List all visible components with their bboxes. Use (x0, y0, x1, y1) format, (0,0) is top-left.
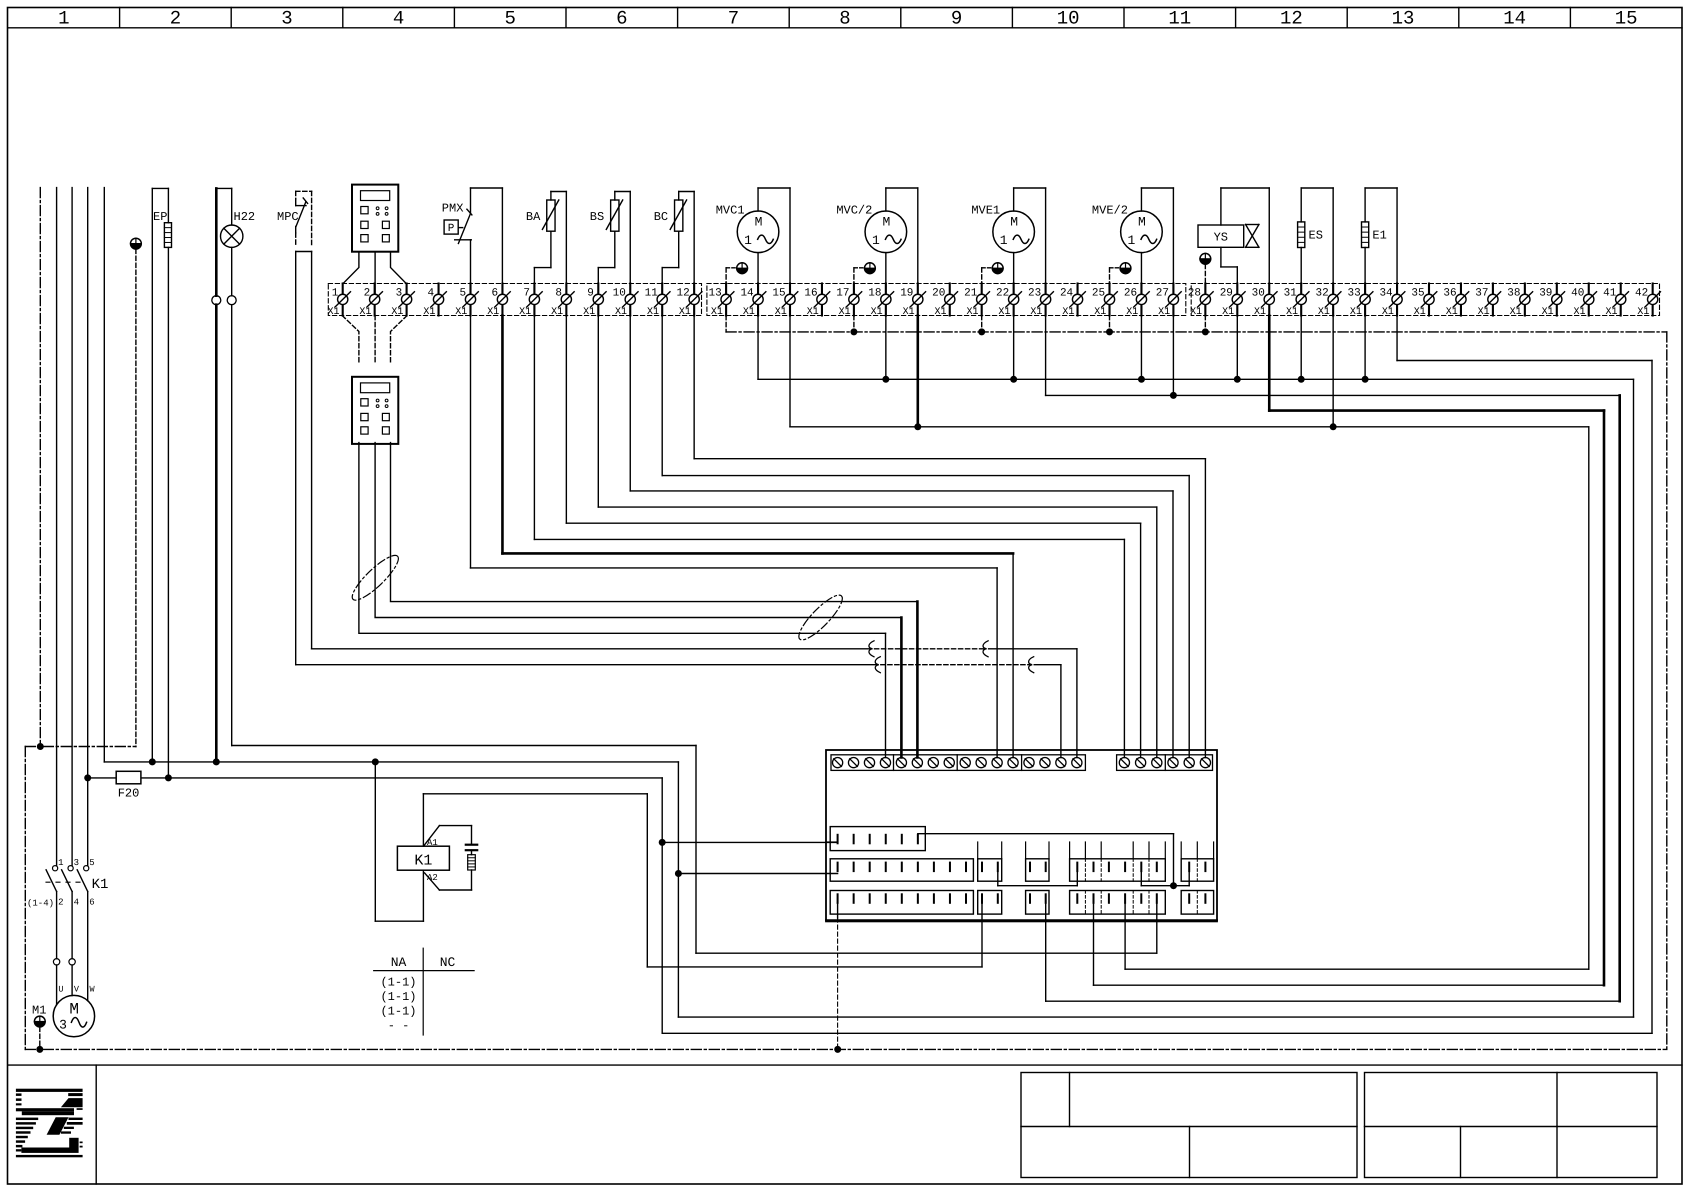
svg-text:W: W (90, 985, 96, 995)
svg-text:(1-1): (1-1) (380, 1005, 416, 1019)
wire neutral bus (104, 758, 682, 877)
svg-text:8: 8 (839, 8, 850, 30)
element E1 (1362, 188, 1398, 294)
svg-text:3: 3 (74, 858, 79, 868)
svg-text:X1: X1 (487, 307, 499, 318)
PE symbol EP (131, 238, 142, 746)
wire board neutral branch (678, 873, 837, 875)
svg-text:M: M (882, 215, 890, 230)
svg-text:X1: X1 (1062, 307, 1074, 318)
keypad unit B (352, 377, 398, 444)
svg-text:X1: X1 (1318, 307, 1330, 318)
svg-text:BS: BS (590, 210, 604, 224)
board row B stubs (978, 842, 1214, 859)
rail N (103, 188, 105, 762)
svg-text:X1: X1 (1030, 307, 1042, 318)
svg-text:U: U (58, 985, 63, 995)
svg-text:27: 27 (1156, 288, 1169, 300)
wire board PE (837, 903, 839, 1050)
PE symbol MVE1 (982, 263, 1003, 295)
wire X1:8 to board screw (566, 316, 1140, 758)
component H22 (212, 188, 255, 762)
sensor BA (526, 192, 566, 295)
wire row A pin6 link (918, 834, 1189, 890)
svg-text:1: 1 (1000, 233, 1008, 248)
svg-text:10: 10 (1057, 8, 1080, 30)
svg-text:13: 13 (708, 288, 721, 300)
svg-text:X1: X1 (583, 307, 595, 318)
svg-text:22: 22 (996, 288, 1009, 300)
svg-text:X1: X1 (1414, 307, 1426, 318)
svg-text:5: 5 (459, 288, 466, 300)
svg-text:K1: K1 (92, 877, 109, 893)
svg-text:X1: X1 (935, 307, 947, 318)
svg-text:BA: BA (526, 210, 541, 224)
svg-text:X1: X1 (391, 307, 403, 318)
wire keypad A to X1:3 (391, 252, 407, 295)
keypad unit A (352, 185, 398, 252)
PE symbol M1 (34, 1016, 45, 1053)
svg-text:2: 2 (58, 898, 63, 908)
svg-text:X1: X1 (551, 307, 563, 318)
svg-text:30: 30 (1252, 288, 1265, 300)
svg-text:X1: X1 (1286, 307, 1298, 318)
svg-text:M: M (1010, 215, 1018, 230)
svg-text:NC: NC (440, 955, 456, 970)
wire MPC upper to board (312, 641, 1077, 758)
svg-text:V: V (74, 985, 80, 995)
svg-text:3: 3 (396, 288, 403, 300)
svg-text:5: 5 (89, 858, 94, 868)
board connector row B (830, 859, 1213, 881)
relay coil K1 (375, 762, 449, 921)
rail PE dash-dot (39, 188, 41, 747)
svg-text:24: 24 (1060, 288, 1074, 300)
terminal strip X1 terminals 1-42 (327, 284, 1660, 318)
component EP (152, 188, 171, 778)
svg-text:35: 35 (1411, 288, 1424, 300)
PE frame bottom (25, 1046, 1667, 1053)
svg-text:3: 3 (59, 1018, 67, 1033)
svg-text:X1: X1 (966, 307, 978, 318)
svg-text:- -: - - (388, 1019, 410, 1033)
svg-text:7: 7 (523, 288, 530, 300)
svg-text:X1: X1 (743, 307, 755, 318)
svg-text:33: 33 (1347, 288, 1360, 300)
snubber RC K1 (424, 826, 477, 890)
wire board to K1 A1 (423, 794, 982, 967)
motor MVE1 (971, 188, 1045, 294)
svg-text:13: 13 (1392, 8, 1415, 30)
svg-text:36: 36 (1443, 288, 1456, 300)
svg-text:MVC1: MVC1 (716, 203, 745, 217)
svg-text:X1: X1 (903, 307, 915, 318)
svg-text:10: 10 (613, 288, 626, 300)
svg-text:18: 18 (868, 288, 881, 300)
PE bus right side (1666, 332, 1668, 1050)
svg-text:X1: X1 (711, 307, 723, 318)
motor MVC1 (716, 188, 790, 294)
svg-text:MPC: MPC (277, 210, 299, 224)
svg-text:6: 6 (89, 898, 94, 908)
svg-text:21: 21 (964, 288, 978, 300)
sensor BC (654, 192, 694, 295)
wire X1:9 to board screw (598, 316, 1157, 758)
svg-text:38: 38 (1507, 288, 1520, 300)
svg-text:37: 37 (1475, 288, 1488, 300)
svg-text:11: 11 (645, 288, 659, 300)
wire X1:34 feed (662, 316, 1652, 1034)
PE symbol YS (1200, 253, 1211, 294)
svg-text:42: 42 (1635, 288, 1648, 300)
wire MPC lower to board (296, 657, 1061, 758)
board connector row C (830, 891, 1213, 915)
svg-text:1: 1 (1128, 233, 1136, 248)
wire X1:6 to board screw (502, 316, 1013, 758)
svg-text:X1: X1 (807, 307, 819, 318)
svg-text:20: 20 (932, 288, 945, 300)
svg-text:X1: X1 (775, 307, 787, 318)
title block frame (8, 1065, 1682, 1184)
svg-text:X1: X1 (359, 307, 371, 318)
svg-text:9: 9 (587, 288, 594, 300)
board screw terminals (831, 755, 1213, 771)
svg-text:X1: X1 (1637, 307, 1649, 318)
svg-text:X1: X1 (1222, 307, 1234, 318)
svg-text:(1-1): (1-1) (380, 990, 416, 1004)
svg-text:34: 34 (1379, 288, 1393, 300)
rail L1 (56, 188, 58, 866)
svg-text:M: M (69, 1001, 79, 1019)
svg-text:NA: NA (391, 955, 407, 970)
svg-text:K1: K1 (414, 852, 432, 869)
element ES (1298, 188, 1334, 294)
svg-text:19: 19 (900, 288, 913, 300)
wire board phase branch (663, 841, 838, 843)
wire keypad A to X1:2 (374, 252, 376, 295)
motor M1 (32, 985, 96, 1037)
motor MVC/2 (836, 188, 917, 294)
svg-text:39: 39 (1539, 288, 1552, 300)
svg-text:X1: X1 (615, 307, 627, 318)
wire keypad B a to board (359, 443, 886, 758)
wire X1:23 X1:27 feed (1046, 316, 1620, 1002)
svg-text:26: 26 (1124, 288, 1137, 300)
svg-text:17: 17 (836, 288, 849, 300)
svg-text:14: 14 (740, 288, 754, 300)
svg-text:11: 11 (1168, 8, 1191, 30)
svg-text:1: 1 (744, 233, 752, 248)
component MPC (277, 191, 312, 246)
solenoid YS (1198, 188, 1269, 294)
svg-text:4: 4 (393, 8, 404, 30)
board connector row A (830, 827, 925, 851)
svg-text:41: 41 (1603, 288, 1617, 300)
svg-text:29: 29 (1220, 288, 1233, 300)
svg-text:(1-4): (1-4) (27, 899, 54, 909)
controller board outline (826, 750, 1217, 921)
svg-text:F20: F20 (118, 787, 140, 801)
svg-text:E1: E1 (1372, 229, 1386, 243)
PE symbol MVC/2 (854, 263, 875, 295)
svg-text:16: 16 (804, 288, 817, 300)
svg-text:M: M (755, 215, 763, 230)
svg-text:X1: X1 (519, 307, 531, 318)
svg-text:6: 6 (491, 288, 498, 300)
fuse F20 (84, 771, 666, 846)
svg-text:2: 2 (170, 8, 181, 30)
wire X1:15 X1:19 X1:32 feed (790, 316, 1589, 970)
PE symbol MVC1 (726, 263, 747, 295)
svg-text:X1: X1 (871, 307, 883, 318)
table NA NC (374, 948, 474, 1035)
svg-text:7: 7 (728, 8, 739, 30)
svg-text:12: 12 (677, 288, 690, 300)
svg-text:X1: X1 (1350, 307, 1362, 318)
svg-text:3: 3 (281, 8, 292, 30)
svg-text:X1: X1 (1478, 307, 1490, 318)
svg-text:1: 1 (332, 288, 339, 300)
svg-text:9: 9 (951, 8, 962, 30)
svg-text:P: P (448, 223, 455, 235)
svg-text:X1: X1 (455, 307, 467, 318)
PE bus (726, 316, 1667, 336)
svg-text:4: 4 (428, 288, 435, 300)
svg-text:1: 1 (58, 858, 63, 868)
svg-text:X1: X1 (1190, 307, 1202, 318)
component PMX (442, 188, 503, 294)
svg-text:12: 12 (1280, 8, 1303, 30)
svg-text:X1: X1 (1126, 307, 1138, 318)
svg-text:X1: X1 (327, 307, 339, 318)
svg-text:5: 5 (504, 8, 515, 30)
svg-text:25: 25 (1092, 288, 1105, 300)
motor MVE/2 (1092, 188, 1173, 294)
svg-text:MVC/2: MVC/2 (836, 203, 872, 217)
wire keypad B b to board (375, 443, 901, 758)
svg-text:2: 2 (364, 288, 371, 300)
svg-text:14: 14 (1503, 8, 1526, 30)
rail L2 (71, 188, 73, 866)
cable keypad remote link (343, 316, 407, 365)
wire keypad A to X1:1 (343, 252, 359, 295)
wire H22 return (232, 746, 1157, 954)
PE frame left (25, 743, 136, 1049)
logo (16, 1089, 83, 1158)
contactor K1 main contacts (27, 858, 108, 909)
cable screen ellipse B (794, 590, 848, 645)
PE symbol MVE/2 (1110, 263, 1131, 295)
svg-text:M1: M1 (32, 1003, 46, 1017)
wire MPC cable pair (296, 252, 312, 665)
svg-text:6: 6 (616, 8, 627, 30)
svg-text:X1: X1 (423, 307, 435, 318)
wire X1:10 to board screw (630, 316, 1173, 758)
wire keypad B c to board (391, 443, 918, 758)
svg-text:X1: X1 (1158, 307, 1170, 318)
wire neutral distribution (678, 316, 1633, 1018)
svg-text:(1-1): (1-1) (380, 976, 416, 990)
svg-text:M: M (1138, 215, 1146, 230)
svg-text:X1: X1 (1382, 307, 1394, 318)
wire X1:7 to board screw (534, 316, 1124, 758)
svg-text:ES: ES (1309, 229, 1323, 243)
svg-text:4: 4 (74, 898, 79, 908)
svg-text:23: 23 (1028, 288, 1041, 300)
wire X1:11 to board screw (662, 316, 1189, 758)
title block box 1 (1021, 1073, 1357, 1178)
svg-text:PMX: PMX (442, 202, 464, 216)
svg-text:X1: X1 (647, 307, 659, 318)
svg-text:1: 1 (872, 233, 880, 248)
title block box 2 (1365, 1073, 1658, 1178)
wire X1:5 to board screw (471, 316, 998, 758)
svg-text:31: 31 (1284, 288, 1298, 300)
svg-text:8: 8 (555, 288, 562, 300)
wire row B link (998, 871, 1078, 886)
svg-text:X1: X1 (1574, 307, 1586, 318)
wire X1:30 feed (1094, 316, 1605, 986)
wire row A pin1 phase (826, 841, 838, 843)
svg-text:H22: H22 (234, 210, 256, 224)
sensor BS (590, 192, 630, 295)
rail L3 (87, 188, 89, 866)
svg-text:X1: X1 (679, 307, 691, 318)
svg-text:MVE/2: MVE/2 (1092, 203, 1128, 217)
svg-text:X1: X1 (1510, 307, 1522, 318)
svg-text:32: 32 (1316, 288, 1329, 300)
svg-text:X1: X1 (1254, 307, 1266, 318)
svg-text:X1: X1 (1446, 307, 1458, 318)
svg-text:X1: X1 (1605, 307, 1617, 318)
svg-text:MVE1: MVE1 (971, 203, 1000, 217)
svg-text:YS: YS (1214, 231, 1228, 245)
svg-text:BC: BC (654, 210, 668, 224)
svg-text:15: 15 (772, 288, 785, 300)
terminal strip X1 outline (328, 284, 1659, 316)
svg-text:28: 28 (1188, 288, 1201, 300)
svg-text:EP: EP (153, 210, 167, 224)
svg-text:1: 1 (58, 8, 69, 30)
wire motor leads (53, 892, 87, 1005)
wire X1:12 to board screw (694, 316, 1205, 758)
svg-text:40: 40 (1571, 288, 1584, 300)
column ruler (8, 8, 1682, 30)
cable screen ellipse A (347, 550, 403, 605)
svg-text:15: 15 (1615, 8, 1638, 30)
svg-text:X1: X1 (998, 307, 1010, 318)
svg-text:X1: X1 (1094, 307, 1106, 318)
svg-text:X1: X1 (839, 307, 851, 318)
svg-text:X1: X1 (1542, 307, 1554, 318)
